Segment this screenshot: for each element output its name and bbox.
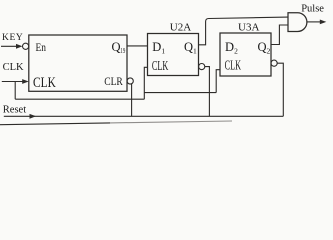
- bottom wire faint continuation: [110, 121, 232, 123]
- flip-flop U2A box: [148, 34, 199, 76]
- svg-text:D: D: [225, 40, 234, 54]
- wire U2A bubble to Reset rail: [205, 67, 210, 117]
- En inversion bubble: [23, 43, 29, 49]
- KEY input arrow wire: [1, 45, 17, 47]
- svg-text:Reset: Reset: [3, 105, 26, 116]
- svg-text:1: 1: [161, 46, 165, 55]
- AND gate: [288, 13, 307, 32]
- Reset rail wire with arrowhead: [4, 115, 284, 117]
- svg-text:Pulse: Pulse: [301, 4, 324, 15]
- flip-flop U3A box: [220, 33, 271, 76]
- svg-text:En: En: [36, 40, 47, 54]
- wire CLK branch down: [14, 82, 16, 100]
- svg-text:D: D: [152, 40, 161, 54]
- svg-text:Q: Q: [258, 40, 267, 54]
- svg-text:2: 2: [234, 46, 238, 55]
- wire CLK feed up to U3A: [216, 70, 220, 93]
- counter U1 box: [29, 35, 127, 91]
- wire Q19 to D1: [127, 45, 148, 47]
- wire CLK rail: [15, 98, 144, 100]
- wire counter CLR to Reset rail: [131, 84, 133, 117]
- svg-text:1: 1: [193, 46, 197, 55]
- CLK input arrow wire: [2, 81, 24, 83]
- svg-text:CLK: CLK: [152, 59, 168, 74]
- U2A clear bubble: [199, 64, 205, 70]
- svg-text:CLK: CLK: [225, 58, 241, 73]
- wire CLK feed up to U2A: [144, 67, 147, 99]
- wire U3A bubble down to Reset rail: [277, 63, 283, 116]
- bottom wire (second rail): [0, 123, 110, 125]
- U3A clear bubble: [271, 60, 277, 66]
- svg-text:U3A: U3A: [238, 21, 259, 33]
- svg-text:19: 19: [120, 47, 125, 55]
- wire Pulse output arrow: [307, 21, 321, 23]
- wire CLK rail to U3A: [144, 92, 216, 94]
- svg-text:Q: Q: [184, 40, 193, 54]
- svg-text:2: 2: [267, 46, 271, 55]
- svg-text:Q: Q: [112, 40, 121, 54]
- svg-text:KEY: KEY: [2, 33, 23, 43]
- wire Q1 up to AND gate: [199, 17, 289, 45]
- svg-text:CLR: CLR: [104, 74, 123, 88]
- svg-text:CLK: CLK: [3, 62, 24, 73]
- svg-text:CLK: CLK: [33, 75, 56, 91]
- CLR inversion bubble (counter): [127, 78, 133, 84]
- svg-text:U2A: U2A: [170, 21, 191, 33]
- wire Q2 up to AND gate: [271, 25, 288, 45]
